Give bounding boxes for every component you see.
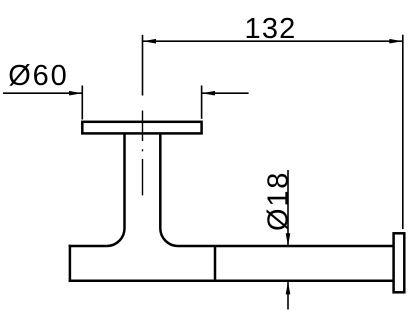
arrow left of dim 132 [143,39,156,44]
end cap [394,233,405,292]
arrow D18 pointing up below bar [286,281,291,294]
wall flange plate [82,122,201,134]
leader line D60 [3,92,82,94]
stem left edge with fillet [107,133,125,246]
svg-text:132: 132 [245,13,297,45]
dimension line 132 [143,40,403,42]
bar top line right segment [178,245,393,248]
extension line flange left [81,86,83,120]
dim line D18 vertical above bar [287,170,289,246]
centerline dot [142,149,144,151]
extension line right of dim 132 [402,35,404,229]
svg-text:Ø60: Ø60 [8,60,68,92]
joint line between post base and tube [214,246,217,281]
leader line D18 below bar [287,281,289,309]
arrow D18 pointing down at bar top [286,233,291,246]
centerline solid extension above flange [142,35,144,96]
bar left end edge [69,245,72,282]
arrow right of dim 132 [389,39,402,44]
arrow D60 pointing right at flange left [69,91,82,96]
bar bottom line [69,280,393,283]
centerline dash through flange [142,111,144,142]
extension line flange right [201,86,203,119]
svg-text:Ø18: Ø18 [262,171,294,231]
centerline dash in stem [142,159,144,195]
bar top line left segment [69,245,107,248]
arrow D60 pointing left at flange right [202,91,215,96]
stem right edge with fillet [160,133,178,246]
dim line right arrow of D60 [202,92,249,94]
